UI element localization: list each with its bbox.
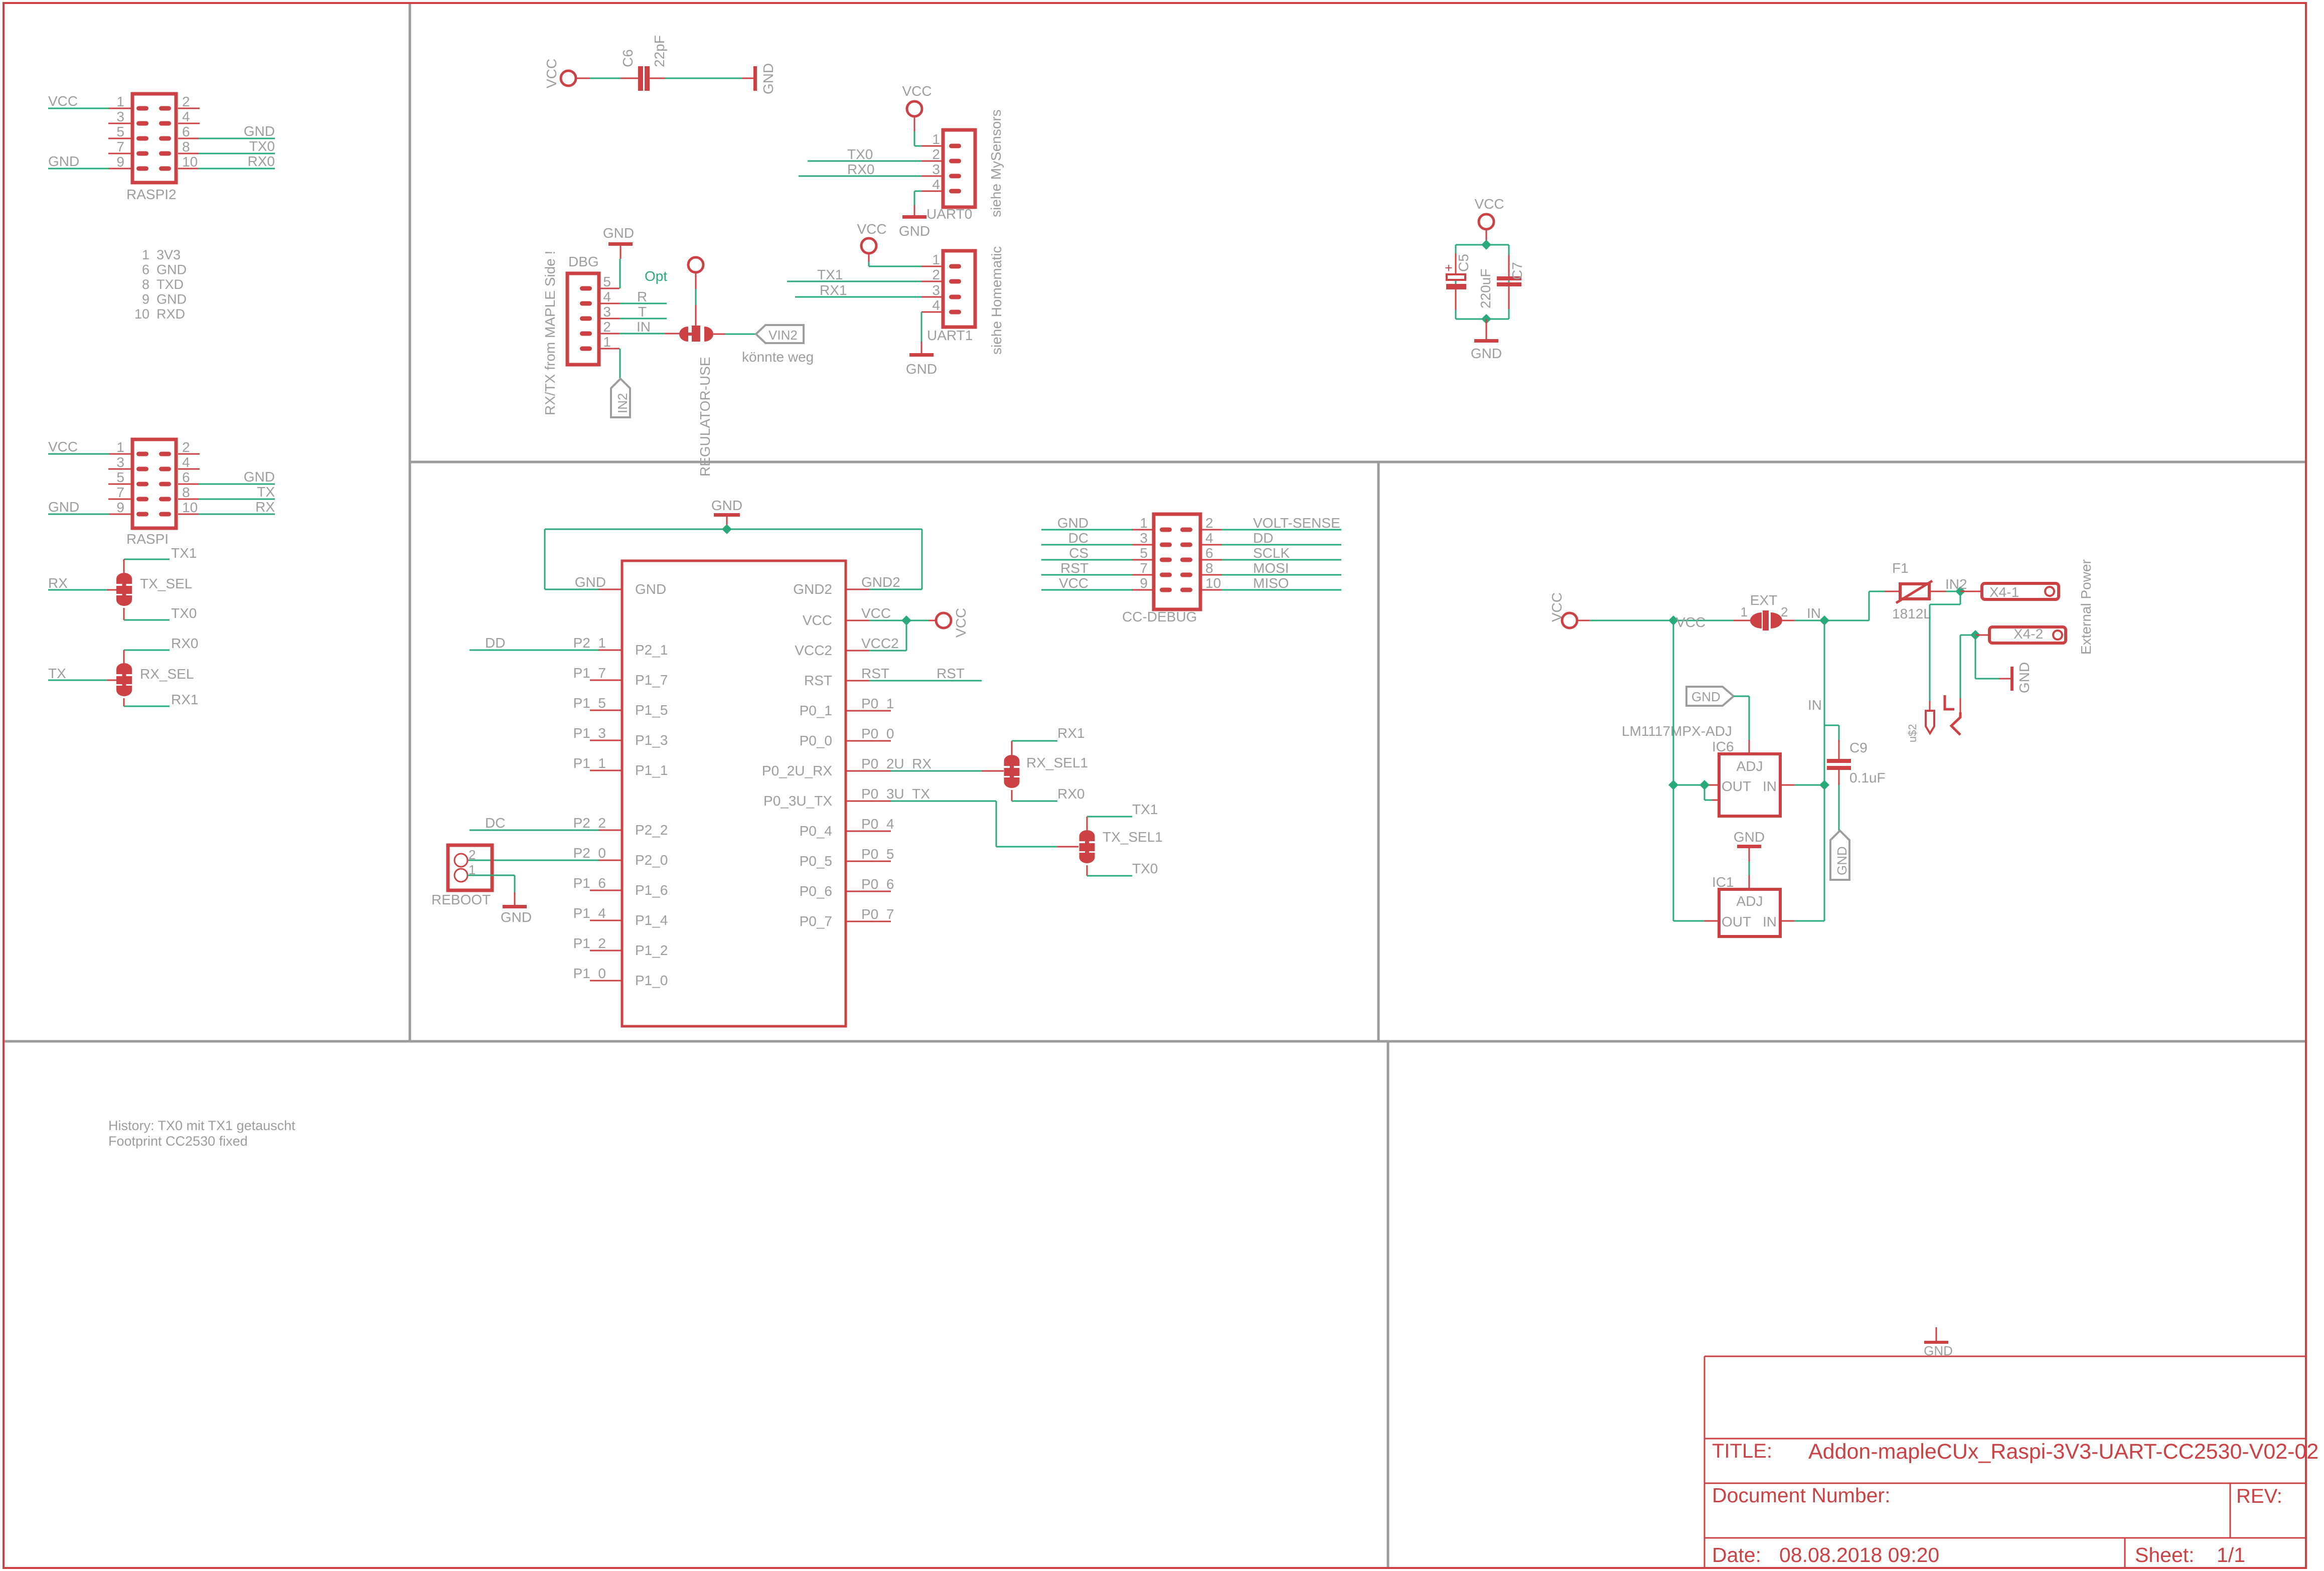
svg-text:RST: RST	[861, 666, 889, 681]
svg-text:ADJ: ADJ	[1737, 758, 1763, 774]
svg-text:RX1: RX1	[1057, 725, 1084, 741]
svg-text:TX0: TX0	[249, 138, 275, 154]
svg-text:2: 2	[469, 847, 476, 862]
svg-text:könnte weg: könnte weg	[742, 349, 814, 365]
svg-text:GND: GND	[1834, 846, 1849, 875]
svg-text:P0_0: P0_0	[861, 726, 894, 741]
svg-text:6: 6	[142, 262, 149, 277]
svg-text:10: 10	[182, 154, 198, 170]
svg-text:P1_0: P1_0	[635, 973, 668, 988]
svg-text:220uF: 220uF	[1478, 269, 1493, 308]
svg-text:08.08.2018 09:20: 08.08.2018 09:20	[1779, 1543, 1939, 1566]
svg-text:RX0: RX0	[1057, 786, 1084, 802]
svg-text:GND: GND	[1057, 515, 1089, 531]
svg-text:3: 3	[932, 282, 940, 298]
svg-text:GND: GND	[48, 499, 79, 515]
svg-text:VCC: VCC	[1676, 614, 1706, 630]
svg-text:TXD: TXD	[157, 277, 184, 292]
svg-text:P0_5: P0_5	[861, 846, 894, 862]
svg-text:5: 5	[116, 124, 124, 139]
svg-text:5: 5	[1140, 545, 1148, 561]
svg-text:T: T	[638, 304, 647, 320]
svg-text:IN2: IN2	[1945, 576, 1967, 592]
svg-text:ADJ: ADJ	[1737, 893, 1763, 909]
svg-text:CC-DEBUG: CC-DEBUG	[1122, 609, 1197, 624]
svg-text:VCC2: VCC2	[861, 636, 899, 651]
svg-text:10: 10	[182, 500, 198, 515]
svg-text:P2_2: P2_2	[573, 815, 606, 831]
svg-text:REV:: REV:	[2236, 1485, 2282, 1507]
svg-text:GND: GND	[906, 361, 937, 377]
svg-text:P1_7: P1_7	[635, 672, 668, 688]
svg-text:P0_3U_TX: P0_3U_TX	[763, 793, 832, 809]
svg-text:1: 1	[932, 252, 940, 267]
svg-text:2: 2	[932, 146, 940, 162]
svg-text:CS: CS	[1069, 545, 1089, 561]
svg-text:RASPI2: RASPI2	[126, 187, 177, 202]
svg-text:1812L: 1812L	[1892, 606, 1931, 621]
svg-text:9: 9	[116, 500, 124, 515]
svg-text:VIN2: VIN2	[768, 328, 798, 343]
svg-text:7: 7	[116, 485, 124, 500]
svg-text:GND: GND	[48, 153, 79, 169]
svg-text:+: +	[1445, 260, 1452, 275]
svg-text:RST: RST	[1060, 560, 1089, 576]
svg-text:TX_SEL: TX_SEL	[140, 576, 192, 591]
svg-text:History: TX0 mit TX1 getauscht: History: TX0 mit TX1 getauscht	[108, 1118, 295, 1133]
svg-text:DC: DC	[485, 815, 505, 831]
svg-text:C9: C9	[1849, 740, 1868, 755]
svg-text:IN: IN	[1808, 697, 1822, 713]
svg-text:1: 1	[1140, 515, 1148, 531]
svg-text:10: 10	[134, 306, 149, 322]
svg-text:RX: RX	[48, 575, 68, 591]
svg-text:RASPI: RASPI	[126, 531, 169, 547]
svg-text:X4-1: X4-1	[1989, 584, 2019, 600]
svg-text:2: 2	[932, 267, 940, 282]
svg-text:GND: GND	[501, 909, 532, 925]
svg-text:3: 3	[603, 304, 611, 320]
svg-text:P0_1: P0_1	[800, 703, 832, 718]
svg-text:Footprint CC2530 fixed: Footprint CC2530 fixed	[108, 1134, 248, 1149]
svg-text:VOLT-SENSE: VOLT-SENSE	[1253, 515, 1340, 531]
svg-text:22pF: 22pF	[652, 35, 667, 67]
svg-text:GND: GND	[157, 262, 187, 277]
svg-text:UART1: UART1	[927, 328, 973, 343]
svg-text:4: 4	[603, 289, 611, 304]
svg-text:P1_2: P1_2	[573, 935, 606, 951]
svg-text:3: 3	[116, 109, 124, 124]
svg-text:C6: C6	[620, 49, 636, 67]
svg-text:7: 7	[1140, 560, 1148, 576]
svg-text:VCC: VCC	[48, 93, 78, 109]
svg-text:TX1: TX1	[1132, 802, 1158, 817]
svg-text:P1_5: P1_5	[635, 702, 668, 718]
svg-text:P0_5: P0_5	[800, 853, 832, 869]
svg-text:10: 10	[1205, 575, 1221, 591]
svg-text:P1_2: P1_2	[635, 942, 668, 958]
svg-text:P2_1: P2_1	[635, 642, 668, 658]
svg-text:4: 4	[932, 177, 940, 192]
svg-text:P0_7: P0_7	[800, 913, 832, 929]
svg-text:F1: F1	[1892, 560, 1909, 576]
svg-text:P0_1: P0_1	[861, 696, 894, 711]
svg-text:MISO: MISO	[1253, 575, 1289, 591]
svg-text:u$2: u$2	[1906, 724, 1919, 742]
svg-text:RX/TX from MAPLE Side !: RX/TX from MAPLE Side !	[542, 251, 558, 415]
svg-text:VCC: VCC	[544, 59, 559, 88]
svg-text:VCC: VCC	[1059, 575, 1089, 591]
svg-text:GND: GND	[1471, 346, 1502, 361]
svg-text:OUT: OUT	[1722, 778, 1751, 794]
svg-text:P2_0: P2_0	[635, 852, 668, 868]
svg-text:9: 9	[142, 292, 149, 307]
svg-text:VCC: VCC	[48, 439, 78, 454]
svg-text:RX: RX	[255, 499, 275, 515]
svg-text:P1_3: P1_3	[635, 732, 668, 748]
svg-text:P1_0: P1_0	[573, 966, 606, 981]
svg-text:4: 4	[1205, 530, 1213, 546]
svg-text:P0_2U_RX: P0_2U_RX	[762, 763, 832, 778]
svg-text:3V3: 3V3	[157, 247, 181, 262]
svg-text:C5: C5	[1456, 254, 1471, 272]
svg-text:GND: GND	[575, 574, 606, 590]
svg-text:TITLE:: TITLE:	[1712, 1440, 1772, 1462]
svg-text:9: 9	[1140, 575, 1148, 591]
svg-text:P0_4: P0_4	[861, 816, 894, 832]
svg-text:RX_SEL1: RX_SEL1	[1026, 755, 1088, 770]
svg-text:P1_1: P1_1	[573, 755, 606, 771]
svg-text:VCC: VCC	[902, 83, 932, 99]
svg-text:OUT: OUT	[1722, 914, 1751, 929]
svg-text:TX0: TX0	[171, 605, 197, 621]
svg-text:VCC: VCC	[1474, 196, 1504, 212]
svg-text:Document Number:: Document Number:	[1712, 1484, 1890, 1507]
svg-text:1: 1	[116, 94, 124, 109]
svg-text:REBOOT: REBOOT	[431, 892, 491, 907]
svg-text:siehe MySensors: siehe MySensors	[988, 109, 1004, 217]
svg-text:TX1: TX1	[171, 545, 197, 561]
svg-text:TX: TX	[48, 666, 66, 681]
svg-text:3: 3	[1140, 530, 1148, 546]
svg-text:2: 2	[182, 439, 190, 455]
svg-text:1: 1	[932, 131, 940, 147]
svg-text:TX_SEL1: TX_SEL1	[1103, 829, 1163, 845]
svg-text:VCC: VCC	[803, 612, 832, 628]
svg-text:TX: TX	[257, 484, 275, 500]
svg-text:P0_6: P0_6	[861, 876, 894, 892]
svg-text:P0_0: P0_0	[800, 733, 832, 748]
svg-text:1/1: 1/1	[2217, 1543, 2245, 1566]
svg-text:TX0: TX0	[1132, 861, 1158, 876]
svg-text:P2_0: P2_0	[573, 845, 606, 861]
svg-text:P1_4: P1_4	[573, 905, 606, 921]
svg-text:6: 6	[1205, 545, 1213, 561]
svg-text:3: 3	[116, 454, 124, 470]
svg-text:8: 8	[182, 485, 190, 500]
svg-text:4: 4	[932, 297, 940, 313]
svg-text:LM1117MPX-ADJ: LM1117MPX-ADJ	[1622, 723, 1732, 739]
svg-text:GND: GND	[603, 225, 634, 241]
svg-text:RXD: RXD	[157, 306, 185, 322]
svg-text:RX0: RX0	[171, 636, 198, 651]
svg-text:P0_7: P0_7	[861, 906, 894, 922]
svg-text:GND: GND	[244, 469, 275, 485]
svg-text:GND: GND	[711, 498, 742, 513]
svg-text:MOSI: MOSI	[1253, 560, 1289, 576]
svg-text:P1_4: P1_4	[635, 912, 668, 928]
svg-text:VCC: VCC	[857, 221, 886, 237]
svg-text:GND: GND	[635, 581, 666, 597]
svg-text:5: 5	[116, 469, 124, 485]
svg-text:P1_6: P1_6	[573, 875, 606, 891]
svg-text:GND: GND	[1734, 829, 1765, 845]
svg-text:IC1: IC1	[1712, 874, 1734, 890]
svg-text:2: 2	[182, 94, 190, 109]
svg-text:VCC2: VCC2	[795, 643, 832, 658]
svg-text:2: 2	[603, 319, 611, 335]
svg-text:5: 5	[603, 274, 611, 289]
svg-text:GND: GND	[157, 292, 187, 307]
svg-text:siehe Homematic: siehe Homematic	[989, 246, 1004, 355]
svg-text:External Power: External Power	[2078, 559, 2094, 655]
svg-text:P0_2U_RX: P0_2U_RX	[861, 756, 932, 771]
svg-text:0.1uF: 0.1uF	[1849, 770, 1886, 785]
svg-text:P1_1: P1_1	[635, 762, 668, 778]
svg-text:C7: C7	[1509, 262, 1525, 280]
svg-text:DD: DD	[485, 635, 505, 651]
svg-text:1: 1	[1741, 604, 1748, 619]
svg-text:RX0: RX0	[248, 153, 275, 169]
svg-text:IN2: IN2	[615, 393, 630, 413]
svg-text:IN: IN	[1807, 605, 1821, 621]
svg-text:P2_2: P2_2	[635, 822, 668, 838]
svg-text:P0_3U_TX: P0_3U_TX	[861, 786, 930, 802]
svg-text:3: 3	[932, 162, 940, 177]
svg-text:REGULATOR-USE: REGULATOR-USE	[697, 357, 713, 477]
svg-text:P1_5: P1_5	[573, 695, 606, 711]
svg-text:4: 4	[182, 109, 190, 124]
svg-text:6: 6	[182, 469, 190, 485]
svg-text:IN: IN	[637, 319, 651, 335]
svg-text:EXT: EXT	[1750, 592, 1777, 608]
svg-text:DC: DC	[1068, 530, 1089, 546]
svg-text:RST: RST	[937, 666, 965, 681]
svg-text:9: 9	[116, 154, 124, 170]
svg-text:SCLK: SCLK	[1253, 545, 1290, 561]
svg-text:RX_SEL: RX_SEL	[140, 666, 194, 682]
svg-text:TX0: TX0	[847, 146, 873, 162]
svg-text:RX1: RX1	[171, 692, 198, 707]
svg-text:GND2: GND2	[793, 581, 832, 597]
svg-text:GND: GND	[1691, 689, 1721, 704]
svg-text:2: 2	[1781, 604, 1788, 619]
svg-text:Sheet:: Sheet:	[2135, 1543, 2195, 1566]
svg-text:Opt: Opt	[645, 268, 667, 284]
svg-text:X4-2: X4-2	[2013, 626, 2043, 642]
svg-text:1: 1	[142, 247, 149, 262]
svg-text:VCC: VCC	[861, 605, 891, 621]
svg-text:P2_1: P2_1	[573, 635, 606, 651]
svg-text:Addon-mapleCUx_Raspi-3V3-UART-: Addon-mapleCUx_Raspi-3V3-UART-CC2530-V02…	[1808, 1440, 2318, 1464]
svg-text:IN: IN	[1763, 914, 1777, 929]
svg-text:DD: DD	[1253, 530, 1273, 546]
svg-text:P1_6: P1_6	[635, 882, 668, 898]
svg-text:VCC: VCC	[953, 608, 969, 638]
svg-text:GND2: GND2	[861, 574, 900, 590]
svg-text:RX0: RX0	[847, 162, 874, 177]
svg-text:GND: GND	[2017, 662, 2032, 693]
svg-text:P0_4: P0_4	[800, 823, 832, 839]
svg-text:GND: GND	[244, 123, 275, 139]
svg-text:8: 8	[1205, 560, 1213, 576]
svg-text:4: 4	[182, 454, 190, 470]
svg-text:7: 7	[116, 139, 124, 154]
svg-text:8: 8	[182, 139, 190, 154]
svg-text:P0_6: P0_6	[800, 883, 832, 899]
svg-text:TX1: TX1	[817, 267, 843, 282]
svg-text:P1_3: P1_3	[573, 725, 606, 741]
svg-text:8: 8	[142, 277, 149, 292]
svg-text:6: 6	[182, 124, 190, 139]
svg-text:GND: GND	[899, 223, 930, 239]
svg-text:RST: RST	[804, 673, 832, 688]
svg-text:DBG: DBG	[568, 254, 599, 269]
svg-text:R: R	[637, 289, 647, 304]
svg-text:GND: GND	[760, 63, 776, 94]
svg-text:RX1: RX1	[820, 282, 847, 298]
svg-text:P1_7: P1_7	[573, 665, 606, 681]
svg-text:IC6: IC6	[1712, 739, 1734, 754]
svg-text:1: 1	[603, 334, 611, 350]
svg-text:1: 1	[116, 439, 124, 455]
svg-text:2: 2	[1205, 515, 1213, 531]
svg-text:Date:: Date:	[1712, 1543, 1761, 1566]
svg-text:IN: IN	[1763, 778, 1777, 794]
svg-text:UART0: UART0	[926, 206, 972, 222]
